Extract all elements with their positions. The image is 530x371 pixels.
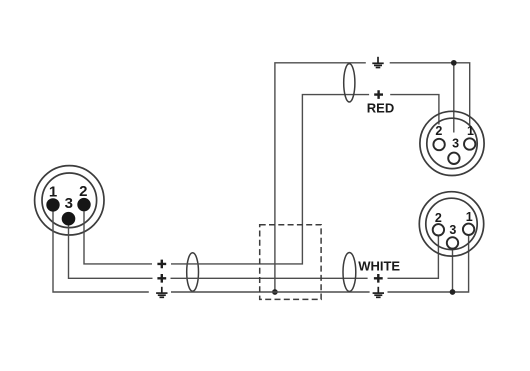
svg-text:1: 1	[467, 124, 474, 138]
connector J2 RED female XLR outer shell	[420, 111, 484, 175]
junction dot WHITE ground	[450, 289, 456, 295]
wire B middle run	[171, 277, 368, 279]
J3 pin 3	[447, 237, 458, 248]
junction dot top ground	[451, 60, 457, 66]
ground symbol left wire C	[156, 287, 167, 298]
J3 pin 1	[463, 224, 474, 235]
J2 pin 1	[464, 138, 475, 149]
svg-text:2: 2	[79, 183, 87, 200]
cable ellipse top	[344, 64, 355, 102]
svg-text:3: 3	[452, 136, 459, 150]
J1 pin 2	[77, 198, 90, 211]
svg-text:WHITE: WHITE	[358, 259, 400, 274]
top ground branch to RED pin3	[453, 63, 455, 133]
+ symbol RED	[374, 90, 383, 99]
J1 pin 1	[46, 198, 59, 211]
splitter dashed box	[260, 225, 321, 300]
svg-text:RED: RED	[367, 101, 394, 116]
+ symbol left wire A	[157, 260, 166, 269]
J2 pin 3	[448, 153, 459, 164]
wire WHITE pin3 branch	[452, 243, 454, 292]
+ symbol left wire B	[157, 274, 166, 283]
wire RED + right segment down to pin2	[390, 95, 439, 125]
wire A continued + riser to RED + run	[171, 95, 369, 264]
connector J1 male XLR inner ring	[42, 173, 97, 228]
svg-text:1: 1	[49, 183, 57, 200]
svg-text:3: 3	[449, 223, 456, 237]
wire C middle run	[171, 291, 370, 293]
cable ellipse right	[343, 253, 356, 292]
J1 pin 3	[62, 212, 76, 226]
top ground right segment to RED pin1	[390, 63, 470, 126]
svg-text:1: 1	[466, 210, 473, 224]
junction dot on ground wire C	[272, 289, 278, 295]
riser ground from junction up and top-left ground run	[275, 63, 366, 292]
wire J1 pin2 to left + (hot)	[84, 205, 152, 264]
connector J3 WHITE female XLR outer shell	[419, 192, 483, 256]
wire B right segment to WHITE pin2	[388, 230, 439, 278]
J3 pin 2	[433, 224, 444, 235]
+ symbol WHITE	[374, 274, 383, 283]
connector J3 inner ring	[426, 198, 477, 249]
connector J1 male XLR outer shell	[35, 166, 104, 235]
wire J1 pin1 to left ground	[53, 205, 149, 292]
wire C right segment to WHITE pin1	[388, 229, 469, 292]
svg-text:2: 2	[435, 211, 442, 225]
svg-text:3: 3	[65, 195, 73, 212]
svg-text:2: 2	[435, 124, 442, 138]
ground symbol WHITE	[373, 287, 384, 298]
ground symbol top (RED shield)	[372, 57, 383, 68]
connector J2 inner ring	[427, 118, 477, 168]
cable ellipse left	[187, 253, 199, 292]
wire J1 pin3 to left + (cold)	[69, 219, 153, 279]
J2 pin 2	[433, 139, 444, 150]
